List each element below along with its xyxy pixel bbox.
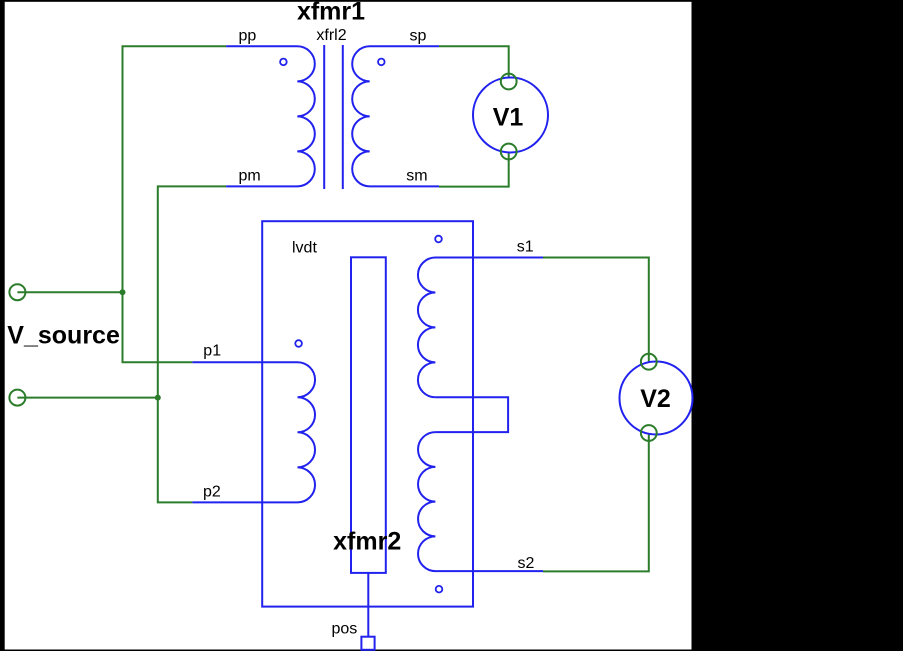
wire sp to V1 [439, 46, 509, 81]
svg-text:sp: sp [410, 28, 427, 45]
LVDT xfmr2 movable core [351, 257, 386, 573]
terminal V_source- [9, 390, 25, 406]
wire s2 to V2 [543, 433, 649, 571]
voltmeter V1 terminal - [501, 144, 517, 160]
voltmeter V2 terminal - [641, 425, 657, 441]
svg-text:xfmr1: xfmr1 [297, 0, 365, 26]
wire pm to V_source- [158, 186, 226, 502]
LVDT pos terminal square [361, 637, 374, 650]
voltmeter V1 body [473, 78, 548, 153]
LVDT pos pin stub [367, 573, 369, 637]
transformer xfmr1 primary winding [226, 46, 315, 186]
terminal V_source+ [9, 284, 25, 300]
svg-text:pp: pp [239, 28, 257, 45]
transformer xfmr1 secondary winding [352, 46, 439, 186]
LVDT polarity dot primary [295, 340, 302, 347]
transformer xfmr1 core [324, 45, 343, 189]
wire V_source+ [17, 291, 122, 293]
wire V_source- [17, 397, 157, 399]
LVDT secondary winding s1 [418, 258, 543, 398]
svg-text:V2: V2 [640, 385, 671, 413]
svg-text:s1: s1 [517, 239, 534, 256]
xfmr1 polarity dot primary [280, 59, 287, 66]
wire sm to V1 [439, 152, 509, 187]
svg-text:xfrl2: xfrl2 [316, 27, 346, 44]
wire s1 to V2 [543, 258, 649, 362]
node junction V_source- [155, 395, 161, 401]
LVDT secondary winding s2 [418, 432, 543, 571]
svg-text:lvdt: lvdt [292, 239, 317, 256]
svg-text:p1: p1 [203, 342, 221, 359]
wire pp to V_source+ [123, 46, 227, 362]
voltmeter V1 terminal + [501, 74, 517, 90]
svg-text:pos: pos [332, 620, 358, 637]
svg-text:pm: pm [239, 168, 261, 185]
voltmeter V2 body [620, 362, 693, 435]
svg-text:s2: s2 [518, 555, 535, 572]
voltmeter V2 terminal + [641, 354, 657, 370]
node junction V_source+ [120, 289, 126, 295]
LVDT polarity dot s1 [435, 236, 442, 243]
svg-text:sm: sm [406, 168, 427, 185]
svg-text:V_source: V_source [7, 322, 120, 350]
svg-text:p2: p2 [203, 484, 221, 501]
svg-text:V1: V1 [493, 104, 524, 132]
LVDT xfmr2 box [262, 221, 473, 606]
svg-text:xfmr2: xfmr2 [333, 528, 401, 556]
LVDT polarity dot s2 [436, 586, 443, 593]
xfmr1 polarity dot secondary [378, 59, 385, 66]
LVDT primary winding p1-p2 [192, 362, 315, 502]
LVDT winding series link [435, 397, 508, 432]
